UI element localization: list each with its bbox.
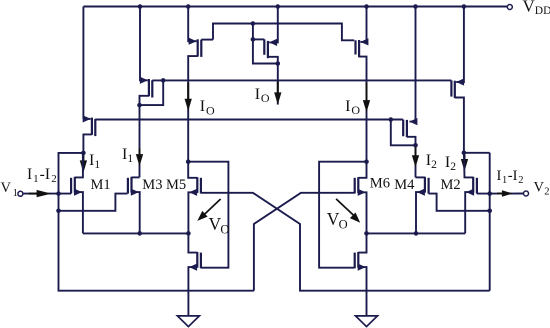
node dot trio bus xyxy=(251,21,256,26)
wire M12 gate-drain diode tie xyxy=(391,120,416,146)
transistor M12 source lead xyxy=(410,7,416,122)
wire node A to M5b gate xyxy=(188,162,228,268)
transistor M6 gate bar xyxy=(354,178,356,194)
transistor M13 channel bar xyxy=(454,81,456,98)
transistor M8 source arrow xyxy=(83,118,90,120)
node dot M12 gate tie xyxy=(389,117,394,122)
transistor M6b gate bar xyxy=(354,253,356,269)
node dot M7 drain xyxy=(137,103,142,108)
transistor M11 source lead xyxy=(361,7,367,42)
transistor M8 drain lead xyxy=(83,134,92,153)
node dot M10 drain xyxy=(276,61,281,66)
transistor M3 drain lead xyxy=(132,176,140,178)
node dot left branch xyxy=(186,231,191,236)
transistor M7 drain lead xyxy=(140,96,149,178)
transistor M2 gate bar xyxy=(476,178,478,194)
transistor M8 channel bar xyxy=(91,118,93,135)
transistor M1 gate bar xyxy=(70,178,72,194)
svg-text:M1: M1 xyxy=(91,177,111,193)
transistor M9 channel bar xyxy=(197,39,199,56)
transistor M4 source lead xyxy=(416,192,425,233)
transistor M5 channel bar xyxy=(196,177,198,193)
transistor M8 gate bar xyxy=(94,119,96,136)
wire left common sources xyxy=(83,232,188,234)
wire V1 input xyxy=(23,193,71,195)
transistor M6 drain lead xyxy=(358,162,366,178)
wire M10 gate-drain diode tie xyxy=(253,24,278,64)
node dot rail x415 xyxy=(413,4,418,9)
wire M3 gate branch xyxy=(59,194,128,211)
transistor M1 drain lead xyxy=(75,153,83,178)
transistor M3 source lead xyxy=(132,192,140,233)
node dot V1 gate xyxy=(56,191,61,196)
wire trio gate bus xyxy=(213,24,354,41)
wire right common sources xyxy=(367,232,466,234)
svg-text:M6: M6 xyxy=(370,176,390,192)
wire left rail drop to M8 source xyxy=(82,7,84,119)
current arrow I1-I2 right xyxy=(497,193,509,195)
transistor M12 gate bar xyxy=(402,120,404,137)
node dot M7 gate tie xyxy=(161,78,166,83)
transistor M11 drain lead xyxy=(359,57,366,162)
wire M2 gate to V2 xyxy=(477,193,523,195)
wire mirror gate bus lower xyxy=(95,119,403,121)
current arrow I2 on M2 drain xyxy=(464,155,466,167)
current arrow IO left xyxy=(187,83,189,108)
wire V2 top link xyxy=(464,152,490,154)
transistor M12 channel bar xyxy=(406,120,408,137)
transistor M5 drain lead xyxy=(188,162,197,178)
node dot right branch xyxy=(364,231,369,236)
transistor M6 gate lead to coupling xyxy=(254,193,355,291)
ground left xyxy=(177,316,199,327)
transistor M5 gate lead to coupling xyxy=(201,193,490,291)
transistor M2 drain lead xyxy=(464,153,473,178)
transistor M3 channel bar xyxy=(130,177,132,193)
transistor M12 drain lead xyxy=(407,137,416,178)
transistor M6 source lead xyxy=(358,192,366,233)
current arrow I1-I2 left xyxy=(29,193,48,195)
transistor M9 gate lead xyxy=(201,39,213,41)
wire V1 down to M6 coupling xyxy=(59,194,254,291)
node dot left input top xyxy=(81,151,86,156)
transistor M13 gate bar xyxy=(450,80,452,96)
terminal VDD xyxy=(507,5,512,10)
ground right xyxy=(356,316,378,327)
wire M10 drain stub with IO arrow xyxy=(277,64,279,105)
current arrow I1 on M1 drain xyxy=(82,155,84,169)
transistor M9 drain lead xyxy=(188,56,198,80)
node dot rail x188 xyxy=(186,4,191,9)
transistor M2 source lead xyxy=(465,192,473,233)
node dot rail x366 xyxy=(364,4,369,9)
transistor M5b source lead xyxy=(188,267,197,316)
transistor M10 gate lead xyxy=(253,38,264,40)
node dot M3 source xyxy=(137,231,142,236)
node dot M10 gate tie xyxy=(251,37,256,42)
transistor M6 channel bar xyxy=(357,177,359,193)
arrow VO right xyxy=(336,199,353,215)
transistor M2 channel bar xyxy=(472,177,474,193)
transistor M10 source lead xyxy=(269,7,278,43)
node dot M4 source xyxy=(414,231,419,236)
transistor M5 source lead xyxy=(188,192,197,233)
transistor M11 channel bar xyxy=(358,40,360,57)
wire V2 vertical xyxy=(489,153,491,291)
node dot node A xyxy=(186,159,191,164)
transistor M13 source lead xyxy=(456,7,464,83)
node dot rail x140 xyxy=(138,4,143,9)
transistor M9 gate bar xyxy=(200,40,202,57)
arrow VO left xyxy=(205,199,221,214)
svg-text:M3: M3 xyxy=(142,177,162,193)
terminal V1 xyxy=(18,191,23,196)
transistor M5b channel bar xyxy=(196,252,198,268)
terminal V2 xyxy=(524,191,529,196)
wire VDD rail xyxy=(83,6,507,8)
wire node A xyxy=(187,80,189,161)
svg-text:M2: M2 xyxy=(441,177,461,193)
transistor M1 source lead xyxy=(75,192,83,233)
transistor M5b drain lead xyxy=(188,233,197,252)
node dot right input top xyxy=(462,151,467,156)
wire M7 gate-drain diode tie xyxy=(140,80,164,105)
transistor M7 gate bar xyxy=(151,80,153,97)
node dot node B xyxy=(364,159,369,164)
transistor M6b channel bar xyxy=(357,252,359,268)
wire mirror gate bus upper xyxy=(152,79,451,81)
svg-text:M4: M4 xyxy=(394,177,415,193)
node dot M12 drain xyxy=(413,143,418,148)
transistor M5 gate bar xyxy=(200,178,202,194)
transistor M11 gate bar xyxy=(354,40,356,54)
node dot V2 gate xyxy=(487,191,492,196)
transistor M10 channel bar xyxy=(267,41,269,58)
current arrow IO right xyxy=(366,83,368,109)
node dot rail x464 xyxy=(462,4,467,9)
wire M4 gate branch xyxy=(429,194,490,211)
transistor M10 drain lead xyxy=(268,57,278,64)
current arrow IO middle xyxy=(277,82,279,101)
transistor M4 drain lead xyxy=(416,176,425,178)
transistor M9 source lead xyxy=(188,7,196,42)
node dot rail x278 xyxy=(276,4,281,9)
transistor M3 gate bar xyxy=(127,178,129,194)
current arrow I2 on M4 drain xyxy=(415,147,417,163)
wire node B to M6b gate xyxy=(319,162,366,268)
transistor M4 channel bar xyxy=(424,177,426,193)
transistor M7 channel bar xyxy=(148,79,150,96)
wire V1 up to input node xyxy=(59,153,84,194)
transistor M7 source lead xyxy=(140,7,148,81)
transistor M6b source lead xyxy=(358,267,366,316)
node dot V2 M4-gate branch xyxy=(487,209,492,214)
transistor M6b drain lead xyxy=(358,233,366,252)
transistor M13 drain lead xyxy=(455,98,464,153)
transistor M4 gate bar xyxy=(428,178,430,194)
svg-text:M5: M5 xyxy=(166,177,186,193)
transistor M10 gate bar xyxy=(263,39,265,55)
node dot V1 M3-gate branch xyxy=(56,209,61,214)
transistor M5b gate bar xyxy=(200,253,202,269)
current arrow I1 on M3 drain xyxy=(139,149,141,163)
transistor M1 channel bar xyxy=(74,177,76,193)
